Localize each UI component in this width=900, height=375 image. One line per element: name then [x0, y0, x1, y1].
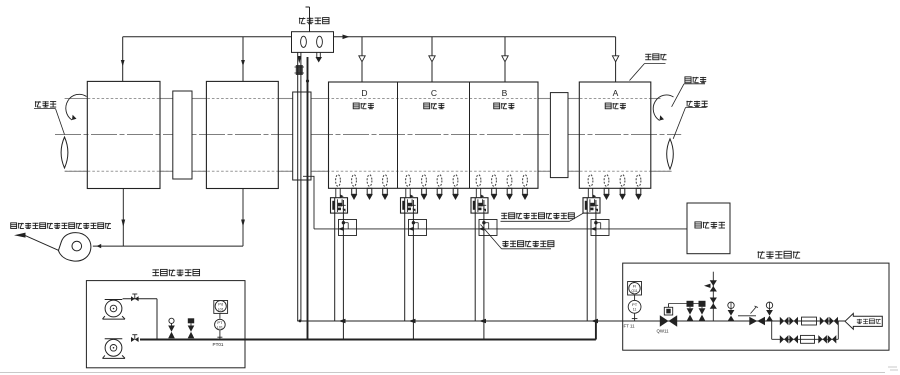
kiln shell top line [65, 98, 661, 100]
gas manifold [297, 320, 622, 322]
suction flow arrow [96, 244, 101, 248]
air main butterfly valve 1 [168, 318, 175, 338]
label heater [630, 54, 667, 81]
gas riser flow arrow [297, 56, 301, 64]
bypass down pipe [771, 321, 773, 339]
solenoid valve 1 [687, 301, 694, 321]
air main butterfly valve 2 [188, 318, 195, 338]
control signal main line [314, 228, 687, 230]
burner D2 [351, 175, 358, 200]
label discharge end [673, 101, 708, 139]
solenoid valve 2 [699, 301, 706, 321]
left furnace box 1 [87, 81, 160, 188]
pressure transmitter PT [215, 313, 226, 339]
svg-text:FI: FI [633, 284, 637, 289]
main branch valve pair 1 [780, 317, 798, 325]
burner valve station C [401, 194, 418, 213]
exhaust downpipe box1 [121, 189, 125, 247]
drop pipe to box1 [121, 37, 125, 82]
burner C1 [406, 175, 411, 198]
pipe compensator box [292, 32, 334, 53]
gauge valve 1 [728, 302, 735, 321]
scan page bottom edge line [0, 372, 885, 374]
burner B4 [522, 175, 529, 200]
burner D4 [382, 175, 389, 200]
burner valve station D [331, 194, 348, 213]
kiln feed-end cap [61, 137, 68, 168]
svg-text:B: B [502, 88, 508, 98]
flow arrow after compensator [343, 35, 350, 40]
heating zone A box [579, 82, 651, 188]
combustion air main [140, 338, 596, 340]
burner B2 [491, 175, 498, 200]
burner A3 [619, 175, 626, 200]
support ring box 2 [293, 92, 311, 180]
bypass valve pair 1 [780, 335, 798, 343]
burner A2 [603, 175, 610, 200]
svg-text:PT: PT [217, 320, 223, 325]
zone letter A [613, 88, 619, 98]
gas manifold flow arrow A [591, 319, 598, 324]
svg-text:PT: PT [632, 302, 638, 307]
drop pipe to zone D [359, 37, 365, 82]
pressure transmitter FT [628, 295, 641, 321]
gas control valve QW11 [660, 304, 677, 327]
label to DeNOx system [11, 223, 111, 229]
label air control valve [481, 225, 554, 249]
svg-text:Pd: Pd [218, 302, 223, 307]
exhaust discharge pipe [25, 236, 59, 251]
label valve group leak check [757, 251, 800, 258]
bypass valve pair 2 [818, 335, 836, 343]
burner D3 [366, 175, 373, 200]
exhaust suction header [93, 245, 243, 247]
svg-text:C: C [431, 88, 437, 98]
rotation arrow feed end [66, 94, 87, 120]
zone divider D/C [397, 82, 399, 188]
left furnace box 2 [206, 81, 278, 188]
burner B3 [506, 175, 513, 200]
exhaust fan [58, 233, 91, 262]
combustion fan 1 [103, 300, 126, 320]
combustion fan system box [86, 281, 245, 368]
fan1 discharge pipe [123, 299, 157, 340]
drop pipe to zone A [612, 37, 618, 82]
gas riser pair [298, 52, 302, 322]
burner A1 [588, 175, 593, 198]
gas manifold flow arrow B [479, 319, 486, 324]
drop pipe to box2 [241, 37, 245, 82]
burner C3 [436, 175, 443, 200]
label carbonization chamber [672, 77, 707, 107]
zone letter B [502, 88, 508, 98]
svg-text:11: 11 [633, 308, 637, 312]
air control box B [478, 220, 497, 236]
top feed pipe right [334, 36, 616, 38]
fan1 valve [131, 294, 139, 301]
air downpipe B [483, 200, 485, 340]
discharge arrow to DeNOx [14, 233, 26, 238]
burner valve station B [471, 194, 488, 213]
fan2 valve [131, 335, 139, 342]
rotation arrow discharge end [653, 95, 673, 121]
top feed pipe left [123, 36, 292, 38]
svg-text:FT 11: FT 11 [624, 324, 636, 329]
gas main in valve box [623, 320, 845, 322]
drop pipe to zone B [502, 37, 508, 82]
kiln shell bottom line [65, 170, 672, 172]
air control box D [338, 220, 357, 236]
exhaust downpipe box2 [241, 189, 245, 247]
gas manifold flow arrow D [338, 319, 345, 324]
zone letter C [431, 88, 437, 98]
label guandao buchang [299, 18, 329, 24]
label jiarequ A [605, 103, 626, 109]
svg-text:D: D [361, 88, 367, 98]
burner A4 [635, 175, 642, 200]
kiln discharge-end cap [667, 139, 674, 169]
gas manifold flow arrow C [408, 319, 415, 324]
label jiarequ C [424, 103, 445, 109]
air riser [307, 57, 309, 340]
gas main manual valve [749, 317, 765, 325]
riser above compensator [306, 7, 310, 32]
svg-text:A: A [613, 88, 619, 98]
support ring box 1 [173, 91, 192, 179]
drop pipe to zone C [429, 37, 435, 82]
combustion fan 2 [103, 339, 126, 359]
bypass bottom pipe [772, 338, 839, 340]
air control box C [408, 220, 427, 236]
label feed end [34, 101, 65, 134]
control signal line from kiln [303, 176, 314, 229]
label FT11 [624, 324, 636, 329]
burner B1 [476, 175, 481, 198]
label jiarequ B [494, 103, 515, 109]
label QW11 [657, 328, 670, 333]
gauge valve 2 [766, 302, 773, 321]
air riser junction dot [306, 79, 309, 82]
svg-text:L01: L01 [218, 308, 224, 312]
svg-text:QW11: QW11 [657, 328, 670, 333]
heating zones D C B outer box [329, 82, 539, 188]
svg-text:PT01: PT01 [213, 342, 224, 347]
air downpipe A [595, 200, 597, 321]
vent valve upper [704, 280, 717, 291]
compensator bellows 1 [301, 36, 307, 47]
pressure gauge PdI [214, 301, 228, 314]
scan corner mark [888, 367, 898, 370]
burner valve station A [583, 194, 600, 213]
solenoid link line [669, 303, 703, 305]
svg-text:L01: L01 [217, 325, 223, 329]
air control box A [590, 220, 609, 236]
kiln centerline [55, 134, 681, 136]
flow meter FIQ [628, 282, 642, 296]
bypass up pipe [837, 321, 839, 339]
burner C2 [421, 175, 428, 200]
vent line [712, 272, 714, 321]
valve train box [623, 263, 889, 350]
manual lever bracket [738, 306, 758, 316]
zone letter D [361, 88, 367, 98]
main branch valve pair 2 [820, 317, 838, 325]
gas downpipe C [404, 213, 406, 321]
bypass filter [801, 335, 815, 343]
air downpipe C [412, 200, 414, 340]
control system box [687, 203, 730, 254]
zone divider C/B [469, 82, 471, 188]
label PT01 [213, 342, 224, 347]
compensator bellows 2 [317, 36, 323, 47]
air downpipe D [342, 200, 344, 340]
compensator right stub [316, 52, 323, 62]
label combustion fan system [152, 269, 199, 275]
burner C4 [452, 175, 459, 200]
support ring box 3 [550, 93, 568, 178]
gas downpipe B [474, 213, 476, 321]
gas downpipe D [334, 213, 336, 321]
main branch filter [802, 317, 817, 325]
gas riser valve cluster [295, 65, 305, 75]
burner D1 [336, 175, 341, 198]
label shaozuiqian pipes [501, 213, 584, 221]
gas supply arrow [845, 313, 882, 329]
vent valve lower [710, 298, 717, 309]
air main end riser [595, 321, 597, 340]
svg-text:Q11: Q11 [631, 289, 637, 293]
label control system [695, 222, 725, 228]
label jiarequ D [353, 103, 374, 109]
gas downpipe A [586, 213, 588, 321]
